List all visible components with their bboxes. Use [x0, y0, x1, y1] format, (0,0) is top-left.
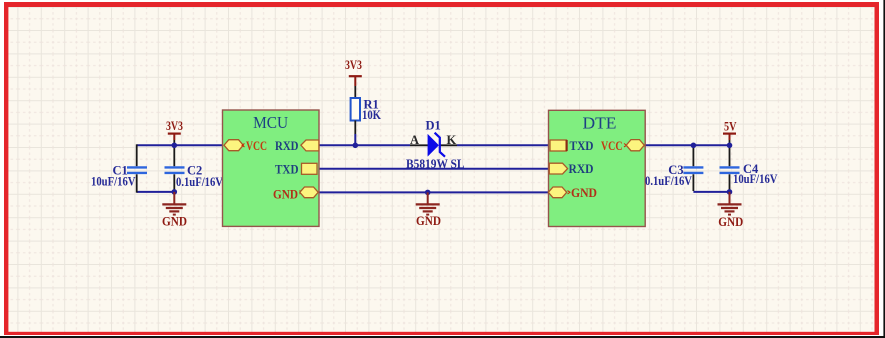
capacitor C3	[645, 147, 703, 192]
table border bottom	[0, 336, 885, 338]
capacitor C4	[720, 147, 778, 192]
svg-text:VCC: VCC	[246, 138, 267, 153]
junction dot (row3 / GND)	[425, 190, 431, 196]
svg-text:RXD: RXD	[569, 161, 594, 176]
DTE pin TXD (left)	[550, 138, 594, 153]
svg-text:0.1uF/16V: 0.1uF/16V	[645, 174, 692, 188]
DTE pin GND (left)	[548, 185, 597, 200]
svg-text:GND: GND	[718, 214, 743, 229]
svg-text:3V3: 3V3	[166, 119, 183, 133]
junction dot (R1 / row1)	[353, 143, 359, 149]
svg-text:K: K	[447, 133, 457, 147]
wire row3 (MCU GND to DTE GND)	[318, 191, 550, 193]
svg-text:GND: GND	[162, 213, 187, 228]
junction dot (C3 / row1 right)	[691, 143, 697, 149]
wire diode pins (black)	[410, 144, 457, 146]
ground GND (left)	[162, 192, 187, 229]
table border right	[883, 0, 885, 338]
svg-text:10uF/16V: 10uF/16V	[733, 172, 778, 186]
power port 3V3 (left)	[166, 119, 183, 145]
svg-text:A: A	[410, 133, 419, 147]
svg-text:TXD: TXD	[570, 138, 594, 153]
junction dot (right bottom / GND)	[727, 189, 733, 195]
ground GND (right)	[718, 192, 744, 229]
svg-text:GND: GND	[571, 185, 597, 200]
wire row1 mid (MCU RXD to DTE TXD)	[318, 144, 550, 146]
DTE pin RXD (left)	[549, 161, 593, 176]
MCU pin VCC (left)	[224, 138, 267, 153]
power port 5V	[723, 120, 737, 146]
junction dot (5V / row1 right)	[727, 143, 733, 149]
component DTE	[549, 110, 646, 226]
wire row2 (MCU TXD to DTE RXD)	[318, 168, 550, 170]
MCU pin RXD (right)	[275, 138, 319, 153]
svg-text:MCU: MCU	[253, 113, 288, 132]
wire right bottom	[693, 191, 729, 193]
svg-text:GND: GND	[273, 186, 298, 201]
svg-text:3V3: 3V3	[345, 58, 362, 72]
wire row1 left (3V3 net to MCU VCC)	[137, 144, 226, 146]
DTE pin VCC (right)	[601, 138, 644, 153]
svg-text:0.1uF/16V: 0.1uF/16V	[176, 175, 223, 189]
junction dot (3V3 / row1)	[172, 143, 178, 149]
svg-text:GND: GND	[416, 213, 441, 228]
wire row1 right (DTE VCC to 5V net)	[645, 144, 730, 146]
ground GND (middle)	[416, 192, 441, 228]
capacitor C1	[91, 144, 147, 192]
svg-text:10uF/16V: 10uF/16V	[91, 175, 136, 189]
MCU pin TXD (right)	[275, 162, 317, 177]
svg-text:D1: D1	[426, 119, 441, 133]
diode D1	[406, 119, 465, 172]
svg-text:DTE: DTE	[583, 113, 617, 132]
wire left bottom	[137, 191, 175, 193]
svg-text:TXD: TXD	[275, 162, 299, 177]
svg-text:VCC: VCC	[601, 138, 623, 153]
MCU pin GND (right)	[273, 186, 318, 201]
junction dot (left bottom / GND)	[172, 189, 178, 195]
capacitor C2	[165, 147, 224, 192]
svg-text:5V: 5V	[724, 120, 737, 134]
svg-text:10K: 10K	[362, 108, 381, 122]
svg-text:B5819W SL: B5819W SL	[406, 156, 465, 171]
component MCU U?	[223, 110, 320, 226]
resistor R1	[345, 58, 381, 146]
svg-text:RXD: RXD	[275, 138, 299, 153]
